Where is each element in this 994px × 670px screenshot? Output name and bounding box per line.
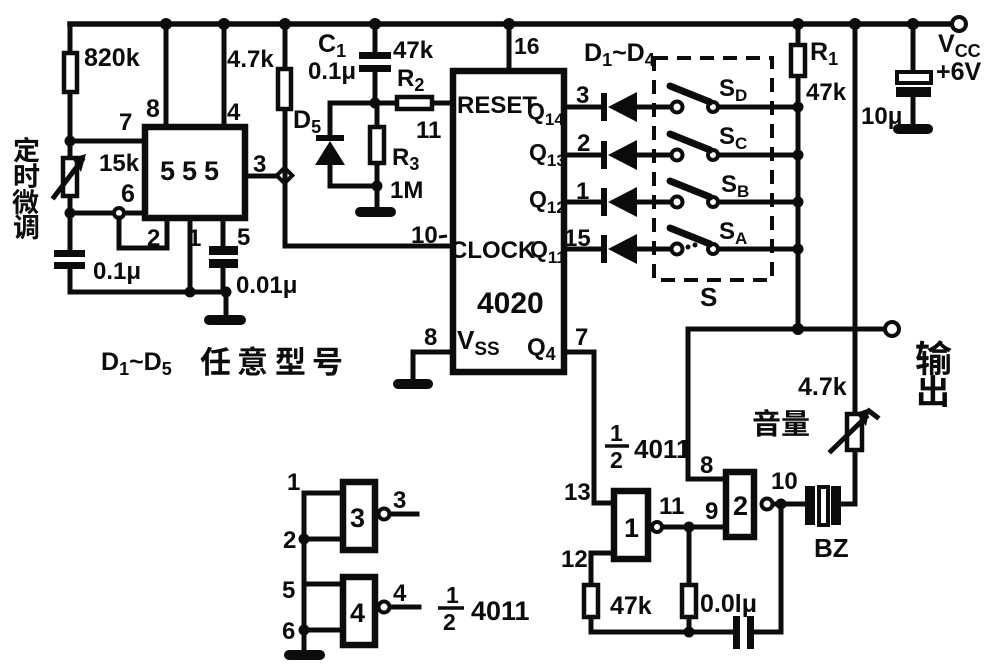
pin label 15 (Q11) — [564, 225, 591, 252]
ground at 4020 pin8 — [398, 379, 428, 389]
value label 0.01u oscillator — [700, 590, 757, 618]
pin label 8 — [700, 452, 713, 479]
wire gate3 pin2 — [304, 537, 342, 542]
svg-text:11: 11 — [659, 493, 684, 520]
svg-text:4020: 4020 — [477, 287, 544, 320]
wire spare input column — [302, 539, 307, 630]
op-amp gate 3 (4011) box — [343, 482, 390, 550]
wire gate2 output to BZ — [773, 502, 806, 507]
node row D dot — [793, 102, 804, 113]
gate label 1 — [624, 513, 639, 543]
node 4.7k bus dot — [279, 18, 291, 30]
wire pin6 of 555 — [70, 211, 145, 216]
wire 4020 pin16 stub — [507, 24, 512, 70]
wire 555 pin8 stub — [164, 24, 169, 125]
switch SA — [670, 228, 718, 255]
svg-text:47k: 47k — [806, 79, 847, 106]
node pin1 rail dot — [185, 287, 196, 298]
svg-text:12: 12 — [561, 546, 588, 573]
value label 1M — [390, 177, 423, 204]
svg-text:0.1μ: 0.1μ — [308, 58, 356, 85]
pin label 10 — [771, 468, 798, 495]
pin label 3 (555) — [253, 151, 266, 178]
node C1/R2/R3 junction — [370, 98, 381, 109]
pin label 4 (gate4 out) — [393, 580, 407, 607]
svg-text:4011: 4011 — [634, 434, 690, 464]
ground under R3 — [360, 207, 391, 217]
wire row Q14 diode to switch — [567, 105, 798, 110]
pin label CLOCK — [450, 237, 536, 264]
svg-text:D1~D4: D1~D4 — [584, 39, 655, 70]
wire top Vcc bus — [70, 21, 953, 27]
pin label 7 (4020) — [575, 324, 588, 351]
node pin5 rail dot — [221, 287, 232, 298]
switch label SD — [719, 75, 747, 105]
svg-text:4011: 4011 — [471, 596, 530, 626]
value label 15k — [99, 150, 140, 177]
gate label 2 — [733, 491, 748, 521]
svg-text:S: S — [700, 282, 717, 312]
pin label 9 — [705, 498, 718, 525]
value label 0.1u left — [93, 258, 141, 285]
svg-text:1: 1 — [446, 582, 459, 608]
svg-text:CLOCK: CLOCK — [450, 237, 536, 264]
note 定时微调 vertical — [12, 137, 39, 240]
svg-text:1: 1 — [576, 178, 589, 205]
node gate3 pin2 junction — [299, 534, 310, 545]
node pin10 junction — [776, 499, 787, 510]
svg-text:1M: 1M — [390, 177, 423, 204]
wire gate2 pin8 branch — [688, 329, 726, 479]
ref label R3 — [392, 144, 419, 174]
potentiometer 4.7k volume — [831, 408, 877, 451]
value label 4.7k top — [227, 46, 274, 73]
buzzer BZ — [805, 486, 841, 525]
pin label Q12 — [529, 186, 566, 217]
switch SC — [670, 134, 718, 161]
wire gate1 pin12 to 47k — [591, 553, 613, 632]
ref label R2 — [397, 65, 424, 95]
switch group S dashed box — [654, 58, 772, 280]
value label 47k oscillator — [610, 592, 652, 620]
wire gate4 pin6 — [304, 628, 342, 633]
pin label 6 (gate4) — [282, 618, 295, 645]
svg-text:10: 10 — [411, 222, 438, 249]
svg-text:15: 15 — [564, 225, 591, 252]
value label 47k R2 — [393, 37, 434, 64]
wire 4020 pin7 Q4 down — [567, 352, 613, 503]
pin label 16 (4020) — [514, 33, 540, 59]
wire pin7 of 555 — [70, 139, 145, 144]
svg-text:11: 11 — [416, 117, 441, 144]
wire to spare ground — [302, 630, 307, 651]
svg-text:47k: 47k — [393, 37, 434, 64]
wire R1 column — [796, 24, 801, 329]
svg-text:5: 5 — [282, 577, 295, 604]
ref label D1~D4 — [584, 39, 655, 70]
diode D2 row Q13 — [601, 140, 637, 170]
svg-text:3: 3 — [350, 503, 365, 533]
group label S — [700, 282, 717, 312]
pin label 2 (gate3) — [283, 527, 296, 554]
node pin4 bus dot — [218, 18, 230, 30]
wire gate1 output to gate2 pin9 — [663, 525, 726, 530]
svg-text:4: 4 — [393, 580, 407, 607]
note D1~D5 任意型号 — [101, 346, 341, 379]
op-amp gate 1 (4011) box — [614, 491, 662, 559]
svg-text:BZ: BZ — [814, 533, 849, 563]
op-amp gate 2 (4011) box — [726, 472, 773, 537]
value label 10u — [861, 103, 902, 130]
ground under 555 — [209, 315, 241, 325]
wire row Q12 diode to switch — [567, 200, 798, 205]
svg-text:47k: 47k — [610, 592, 652, 620]
ref label C1 — [318, 30, 346, 61]
gate label 1/2 4011 lower — [438, 582, 530, 635]
svg-text:2: 2 — [147, 225, 160, 252]
node 10u bus dot — [907, 18, 919, 30]
value label 0.1u C1 — [308, 58, 356, 85]
svg-text:10: 10 — [771, 468, 798, 495]
pin label Q13 — [529, 139, 566, 170]
node pin11 junction — [684, 522, 695, 533]
wire 555 pin3 output — [248, 174, 285, 179]
svg-text:D1~D5: D1~D5 — [101, 348, 172, 379]
node row B dot — [793, 197, 804, 208]
svg-text:2: 2 — [443, 609, 456, 635]
pin label 11 — [659, 493, 684, 520]
wire R3 column — [375, 103, 380, 207]
svg-text:4: 4 — [227, 99, 241, 126]
pin label 5 (555) — [237, 224, 250, 251]
value label 47k R1 — [806, 79, 847, 106]
svg-text:5: 5 — [237, 224, 250, 251]
node bottom oscillator junction — [684, 627, 695, 638]
gate label 4 — [350, 598, 365, 628]
wire row Q13 diode to switch — [567, 153, 798, 158]
ref label BZ — [814, 533, 849, 563]
svg-text:8: 8 — [700, 452, 713, 479]
op-amp U1 555 timer box — [145, 127, 245, 218]
node pin8 bus dot — [160, 18, 172, 30]
pin label 11 (4020 reset) — [416, 117, 441, 144]
svg-text:13: 13 — [564, 479, 591, 506]
value label 820k — [84, 44, 140, 72]
node R3 bottom junction — [372, 181, 383, 192]
svg-text:1: 1 — [624, 513, 639, 543]
pin label 3 (gate3 out) — [393, 487, 406, 514]
op-amp gate 4 (4011) box — [343, 577, 390, 645]
pin label 2 (Q13) — [577, 130, 590, 157]
ic label 555 — [160, 156, 226, 186]
svg-text:2: 2 — [610, 447, 623, 473]
node row A dot — [793, 244, 804, 255]
op-amp U2 4020 counter box — [453, 71, 564, 372]
svg-text:2: 2 — [577, 130, 590, 157]
svg-text:3: 3 — [393, 487, 406, 514]
wire feedback resistor column — [687, 527, 692, 632]
pin label 1 (gate3) — [287, 469, 300, 496]
svg-text:4.7k: 4.7k — [227, 46, 274, 73]
pin label 7 (555) — [119, 109, 132, 136]
pin label 5 (gate4) — [282, 577, 295, 604]
resistor 820k — [64, 53, 77, 92]
gate label 1/2 4011 upper — [605, 420, 690, 473]
capacitor 0.01u (555 pin5) — [209, 246, 238, 268]
wire clock line to 4020 pin10 — [285, 244, 448, 249]
diode D5 — [315, 135, 345, 165]
svg-text:9: 9 — [705, 498, 718, 525]
capacitor 10u electrolytic — [896, 72, 931, 97]
node pin6/pin2 tap circle — [114, 208, 124, 218]
node C1 bus dot — [369, 18, 381, 30]
svg-text:8: 8 — [146, 95, 160, 123]
node pin3 junction diamond — [277, 168, 293, 184]
wire oscillator bottom rail — [591, 504, 781, 632]
svg-text:6: 6 — [121, 180, 135, 208]
svg-text:0.1μ: 0.1μ — [93, 258, 141, 285]
capacitor C1 0.1u — [359, 52, 391, 72]
ic label 4020 — [477, 287, 544, 320]
wire gate1 pin13 — [594, 501, 613, 506]
node gate4 pin6 junction — [299, 625, 310, 636]
switch label SA — [719, 218, 747, 248]
value label +6V — [936, 58, 982, 86]
terminal Vcc — [952, 17, 966, 31]
wire 555 pin5 stub — [221, 220, 226, 292]
switch SB — [670, 181, 718, 208]
pin label 13 — [564, 479, 591, 506]
svg-text:15k: 15k — [99, 150, 140, 177]
ref label D5 — [293, 106, 321, 137]
svg-text:2: 2 — [733, 491, 748, 521]
capacitor 0.1u (555 pin6) — [54, 250, 85, 269]
pin label 1 (Q12) — [576, 178, 589, 205]
wire gate4 pin5 — [304, 582, 342, 587]
note 音量 — [753, 409, 808, 437]
wire gate3 pin1 — [304, 493, 342, 539]
resistor 4.7k pull-up — [278, 69, 291, 109]
svg-text:7: 7 — [119, 109, 132, 136]
switch label SB — [721, 171, 749, 201]
node R1 bus dot — [792, 18, 804, 30]
node pin7 junction — [65, 136, 76, 147]
wire 10u column — [911, 24, 916, 126]
pin label 10 (4020 clock) — [411, 222, 447, 249]
pin label RESET — [457, 92, 537, 119]
gate label 3 — [350, 503, 365, 533]
svg-text:1: 1 — [610, 420, 623, 446]
svg-text:RESET: RESET — [457, 92, 537, 119]
value label 0.01u left — [236, 272, 297, 299]
svg-text:8: 8 — [424, 324, 437, 351]
svg-text:555: 555 — [160, 156, 226, 186]
pin label 8 (555) — [146, 95, 160, 123]
svg-text:16: 16 — [514, 33, 540, 59]
resistor R1 47k — [791, 45, 805, 76]
svg-text:4.7k: 4.7k — [798, 373, 847, 401]
wire bottom ground rail under 555 — [70, 292, 226, 315]
diode D4 row Q11 — [601, 234, 637, 264]
svg-text:6: 6 — [282, 618, 295, 645]
pin label 12 — [561, 546, 588, 573]
svg-text:0.0lμ: 0.0lμ — [700, 590, 757, 618]
wire row Q11 diode to switch — [567, 247, 798, 252]
switch label SC — [719, 123, 747, 153]
resistor 47k oscillator — [584, 585, 598, 617]
wire left column (820k branch) — [68, 24, 73, 292]
wire output line — [688, 327, 886, 332]
svg-text:820k: 820k — [84, 44, 140, 72]
wire R2 to RESET pin11 — [375, 101, 450, 106]
diode D1 row Q14 — [601, 92, 637, 122]
pin label 2 (555) — [147, 225, 160, 252]
ground under 10u — [898, 124, 928, 134]
svg-text:3: 3 — [253, 151, 266, 178]
wire 4.7k pull-up column — [283, 24, 288, 246]
pin label 4 (555) — [227, 99, 241, 126]
pin label Q14 — [527, 98, 564, 129]
value label 4.7k volume — [798, 373, 847, 401]
svg-text:1: 1 — [287, 469, 300, 496]
svg-text:2: 2 — [283, 527, 296, 554]
resistor R3 1M — [370, 127, 384, 163]
potentiometer 15k — [54, 154, 86, 197]
net label 输出 — [916, 340, 952, 407]
resistor oscillator feedback — [682, 585, 696, 617]
node output junction — [792, 323, 804, 335]
svg-text:4: 4 — [350, 598, 365, 628]
capacitor 0.01u oscillator — [733, 616, 754, 649]
terminal output — [885, 322, 899, 336]
wire D5 branch — [330, 103, 377, 186]
node volume bus dot — [849, 18, 861, 30]
pin label 6 (555) — [121, 180, 135, 208]
svg-text:7: 7 — [575, 324, 588, 351]
svg-text:1: 1 — [188, 225, 201, 252]
node pin6 junction — [65, 208, 76, 219]
node row C dot — [793, 150, 804, 161]
pin label Q11 — [530, 236, 566, 267]
svg-text:10μ: 10μ — [861, 103, 902, 130]
wire pin2 loop — [119, 218, 167, 248]
ground spare gates — [289, 650, 320, 660]
wire 4020 pin8 to ground — [413, 352, 450, 380]
pin label 8 (4020) — [424, 324, 437, 351]
wire gate4 output — [390, 605, 419, 610]
resistor R2 47k horizontal — [397, 97, 432, 109]
svg-text:3: 3 — [576, 82, 589, 109]
wire 555 pin4 stub — [222, 24, 227, 125]
wire volume column from bus — [840, 24, 855, 504]
wire gate3 output — [390, 512, 417, 517]
pin label Vss — [457, 325, 500, 360]
net label Vcc — [938, 30, 981, 61]
pin label Q4 — [527, 334, 556, 364]
wire C1 column — [373, 24, 378, 103]
wire 555 pin1 stub — [188, 220, 193, 292]
pin label 1 (555) — [188, 225, 201, 252]
svg-text:0.01μ: 0.01μ — [236, 272, 297, 299]
diode D3 row Q12 — [601, 187, 637, 217]
pin label 3 (Q14) — [576, 82, 589, 109]
switch SD — [670, 86, 718, 113]
svg-text:+6V: +6V — [936, 58, 982, 86]
ref label R1 — [810, 38, 838, 69]
node pin16 bus dot — [503, 18, 515, 30]
